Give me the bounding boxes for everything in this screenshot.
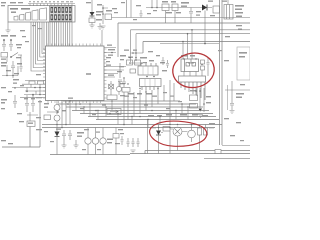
ground mid-top <box>90 25 95 28</box>
junction dots Q1 <box>195 90 205 105</box>
resistor R8 <box>127 60 133 65</box>
wire top-right rail <box>146 7 202 9</box>
wire loop internals <box>150 125 206 154</box>
junction dots J-block <box>151 7 158 9</box>
wire band y124.5 long <box>42 124 222 126</box>
resistor R1 <box>1 53 8 58</box>
wire x103 <box>103 5 108 24</box>
capacitor C18 <box>166 60 169 68</box>
junction dots U5 <box>183 58 202 65</box>
capacitor C5 <box>25 95 29 112</box>
capacitor C6 <box>31 95 35 112</box>
diode D1 <box>90 12 95 16</box>
wire band y127.5 long <box>42 127 215 129</box>
wire bottom rail <box>50 154 130 156</box>
connector J2 right <box>237 47 250 80</box>
resistor R3 <box>89 16 95 25</box>
resistor R12 <box>163 127 170 132</box>
ground bus A end <box>98 23 103 30</box>
wire top header line <box>28 4 75 7</box>
label center scatter <box>120 50 174 99</box>
wire fan strip to IC left <box>31 22 46 71</box>
capacitor C20 <box>140 10 143 18</box>
label bundle gap <box>20 25 42 42</box>
capacitor C9 <box>230 100 234 110</box>
wire bus D <box>136 33 250 35</box>
label right-mid scatter <box>218 50 245 141</box>
diode D5 <box>156 131 161 136</box>
transistor Q9 <box>108 81 122 95</box>
transistor Q7 <box>54 100 60 114</box>
wire verticals top middle <box>127 0 132 18</box>
junction dots y63 <box>129 57 137 64</box>
ground Q1 <box>198 115 203 118</box>
junction dots left extras <box>6 75 33 96</box>
capacitor C17 <box>162 57 165 65</box>
IC U6 flat <box>179 76 206 100</box>
label J2 <box>239 52 247 58</box>
wire mid-top feed <box>91 0 93 12</box>
wire resistor drops <box>166 11 192 24</box>
ground right <box>230 111 235 114</box>
pin number labels <box>29 1 73 2</box>
IC U2 <box>224 0 233 19</box>
capacitor C12 <box>62 130 66 140</box>
wire band y119.5 <box>96 119 219 121</box>
label Q9 <box>120 83 125 96</box>
ground x103 <box>101 26 106 29</box>
wire band tick crossings <box>70 101 188 128</box>
label above U5 <box>181 55 195 57</box>
diode D2 <box>202 5 207 11</box>
junction dots U5 risers <box>182 29 193 42</box>
wire band y113.5 <box>80 113 213 115</box>
label loop top <box>148 114 215 128</box>
junction dots x103 <box>102 7 104 15</box>
wire bus C <box>131 29 251 31</box>
resistor R18 <box>130 69 136 73</box>
label near R4 <box>97 4 112 12</box>
IC U4 <box>140 79 162 91</box>
junction dots cluster top <box>132 52 137 54</box>
label center cluster <box>120 55 154 61</box>
label D1 R3 <box>96 11 103 21</box>
wire bus A <box>112 17 251 19</box>
label Q1 <box>190 90 211 103</box>
wire x227 short <box>227 85 229 110</box>
IC U5 <box>181 59 199 72</box>
label C5 C6 <box>24 98 35 99</box>
capacitor C16 <box>20 63 23 72</box>
junction dots center extras <box>123 77 158 92</box>
junction dots RN1 <box>26 87 41 96</box>
wire diode drop <box>160 8 219 44</box>
resistor R17 <box>107 95 117 100</box>
resistor R4 <box>105 14 112 20</box>
connector J1 <box>8 6 75 23</box>
ground bottom A <box>62 140 67 148</box>
wire arrow mid-left <box>47 111 59 113</box>
wire band y110.5 <box>72 110 209 112</box>
filter block FL1 dense <box>50 6 73 22</box>
wire drop x102 <box>101 30 103 46</box>
resistor R9 <box>135 60 141 65</box>
wire bundle center drop <box>124 85 164 125</box>
highlight ellipse <box>171 51 216 90</box>
resistor R14 <box>198 128 202 135</box>
capacitor C4 <box>13 95 17 108</box>
wire bundle strip to IC top <box>50 22 72 46</box>
transistor Q1 block <box>190 88 205 112</box>
label J1 <box>10 8 30 13</box>
wire U5 pin risers <box>183 30 192 59</box>
junction dots loop <box>158 124 193 129</box>
label cluster extra <box>119 62 167 71</box>
wire U5 drops <box>184 70 208 76</box>
resistor R15 <box>204 128 208 135</box>
wire IC right pin extensions <box>104 48 126 78</box>
wire bottom bus 1 <box>145 151 250 155</box>
capacitor C2 <box>9 39 13 51</box>
wire bottom bus 3 <box>204 157 250 159</box>
wire bottom bus 2 <box>130 153 250 155</box>
label under cluster <box>128 93 152 95</box>
ground top-left <box>6 22 11 33</box>
wire right short <box>222 145 250 147</box>
wire D4 drop <box>56 128 58 155</box>
transistor Q2 <box>85 128 91 155</box>
opto U7 <box>107 109 121 115</box>
wire x170 drop <box>170 80 174 125</box>
label Q7 <box>44 103 66 111</box>
wire loop left drop <box>147 120 149 154</box>
resistor R7 <box>213 6 220 13</box>
resistor network RN1 <box>12 81 46 98</box>
junction dot pin ext <box>111 52 113 54</box>
wire band y104 <box>58 103 196 105</box>
transistor Q8 <box>54 115 60 128</box>
IC U3 <box>138 63 158 75</box>
wire left column extras <box>2 55 21 78</box>
capacitor C11 <box>207 58 210 70</box>
diode D4 <box>55 132 60 137</box>
label left column scatter <box>1 44 42 144</box>
wire band y101 <box>63 100 180 102</box>
label left mid <box>1 62 22 67</box>
label top-right scatter <box>196 1 242 38</box>
wire band y107 <box>66 106 203 108</box>
resistor R13 <box>44 115 51 120</box>
wire cluster top links <box>131 30 144 62</box>
wire right tall pair <box>220 0 223 145</box>
IC U1 <box>43 44 107 104</box>
transformer wedge array T1 <box>14 8 47 20</box>
label right mid <box>236 93 244 98</box>
wire verticals to J-block <box>152 0 157 8</box>
switch S1 <box>10 53 22 58</box>
wire junction row <box>27 112 38 121</box>
transistor Q6 <box>188 125 196 143</box>
capacitor C15 <box>118 80 122 87</box>
wire bus E <box>143 42 250 54</box>
junction dots center <box>129 57 155 78</box>
ground bank <box>131 150 136 153</box>
resistor R16 <box>215 150 221 154</box>
capacitor C8 <box>122 78 126 87</box>
wire bottom-left verticals <box>62 100 70 128</box>
wire right drop <box>225 81 250 100</box>
ground bottom B <box>74 140 79 148</box>
resistor R2 <box>27 121 35 127</box>
diode D3 <box>199 109 203 112</box>
label top-left corner <box>1 2 23 6</box>
wire bottom-left L <box>2 100 40 147</box>
label GND row <box>1 35 16 37</box>
resistor R10 <box>122 88 130 93</box>
wire bus B <box>118 23 250 57</box>
label bottom scatter <box>44 129 124 151</box>
label Q2 row <box>107 139 113 144</box>
wire bundle extra lines <box>46 22 48 46</box>
wire cluster y63 <box>120 63 141 78</box>
transistor Q5 <box>173 127 182 136</box>
capacitor C19 <box>121 136 124 145</box>
label C4 <box>1 99 7 104</box>
capacitor C3 <box>11 61 15 72</box>
label pin ext <box>106 45 122 76</box>
capacitor bank C14 <box>127 138 140 147</box>
label R2 <box>28 123 33 124</box>
capacitor C13 <box>68 130 72 140</box>
resistor R5 <box>162 4 169 11</box>
transistor Q3 <box>92 128 98 155</box>
highlight loop <box>150 121 207 146</box>
label band scatter <box>68 98 182 116</box>
junction dots band extras <box>69 100 188 120</box>
label R5 R6 <box>162 1 189 13</box>
capacitor C1 <box>2 39 6 51</box>
transistor Q4 <box>100 128 106 155</box>
junction dots band <box>67 103 171 125</box>
label bottom-left <box>77 132 84 137</box>
resistor R19 <box>113 128 119 155</box>
resistor R6 <box>172 4 178 11</box>
capacitor C10 <box>189 8 193 17</box>
junction dots band left <box>56 124 67 129</box>
label top-middle scatter <box>86 2 157 20</box>
wire band y116.5 <box>88 116 216 118</box>
label U2 <box>235 5 244 17</box>
resistor R11 <box>201 60 205 70</box>
junction dot diode <box>204 43 206 45</box>
